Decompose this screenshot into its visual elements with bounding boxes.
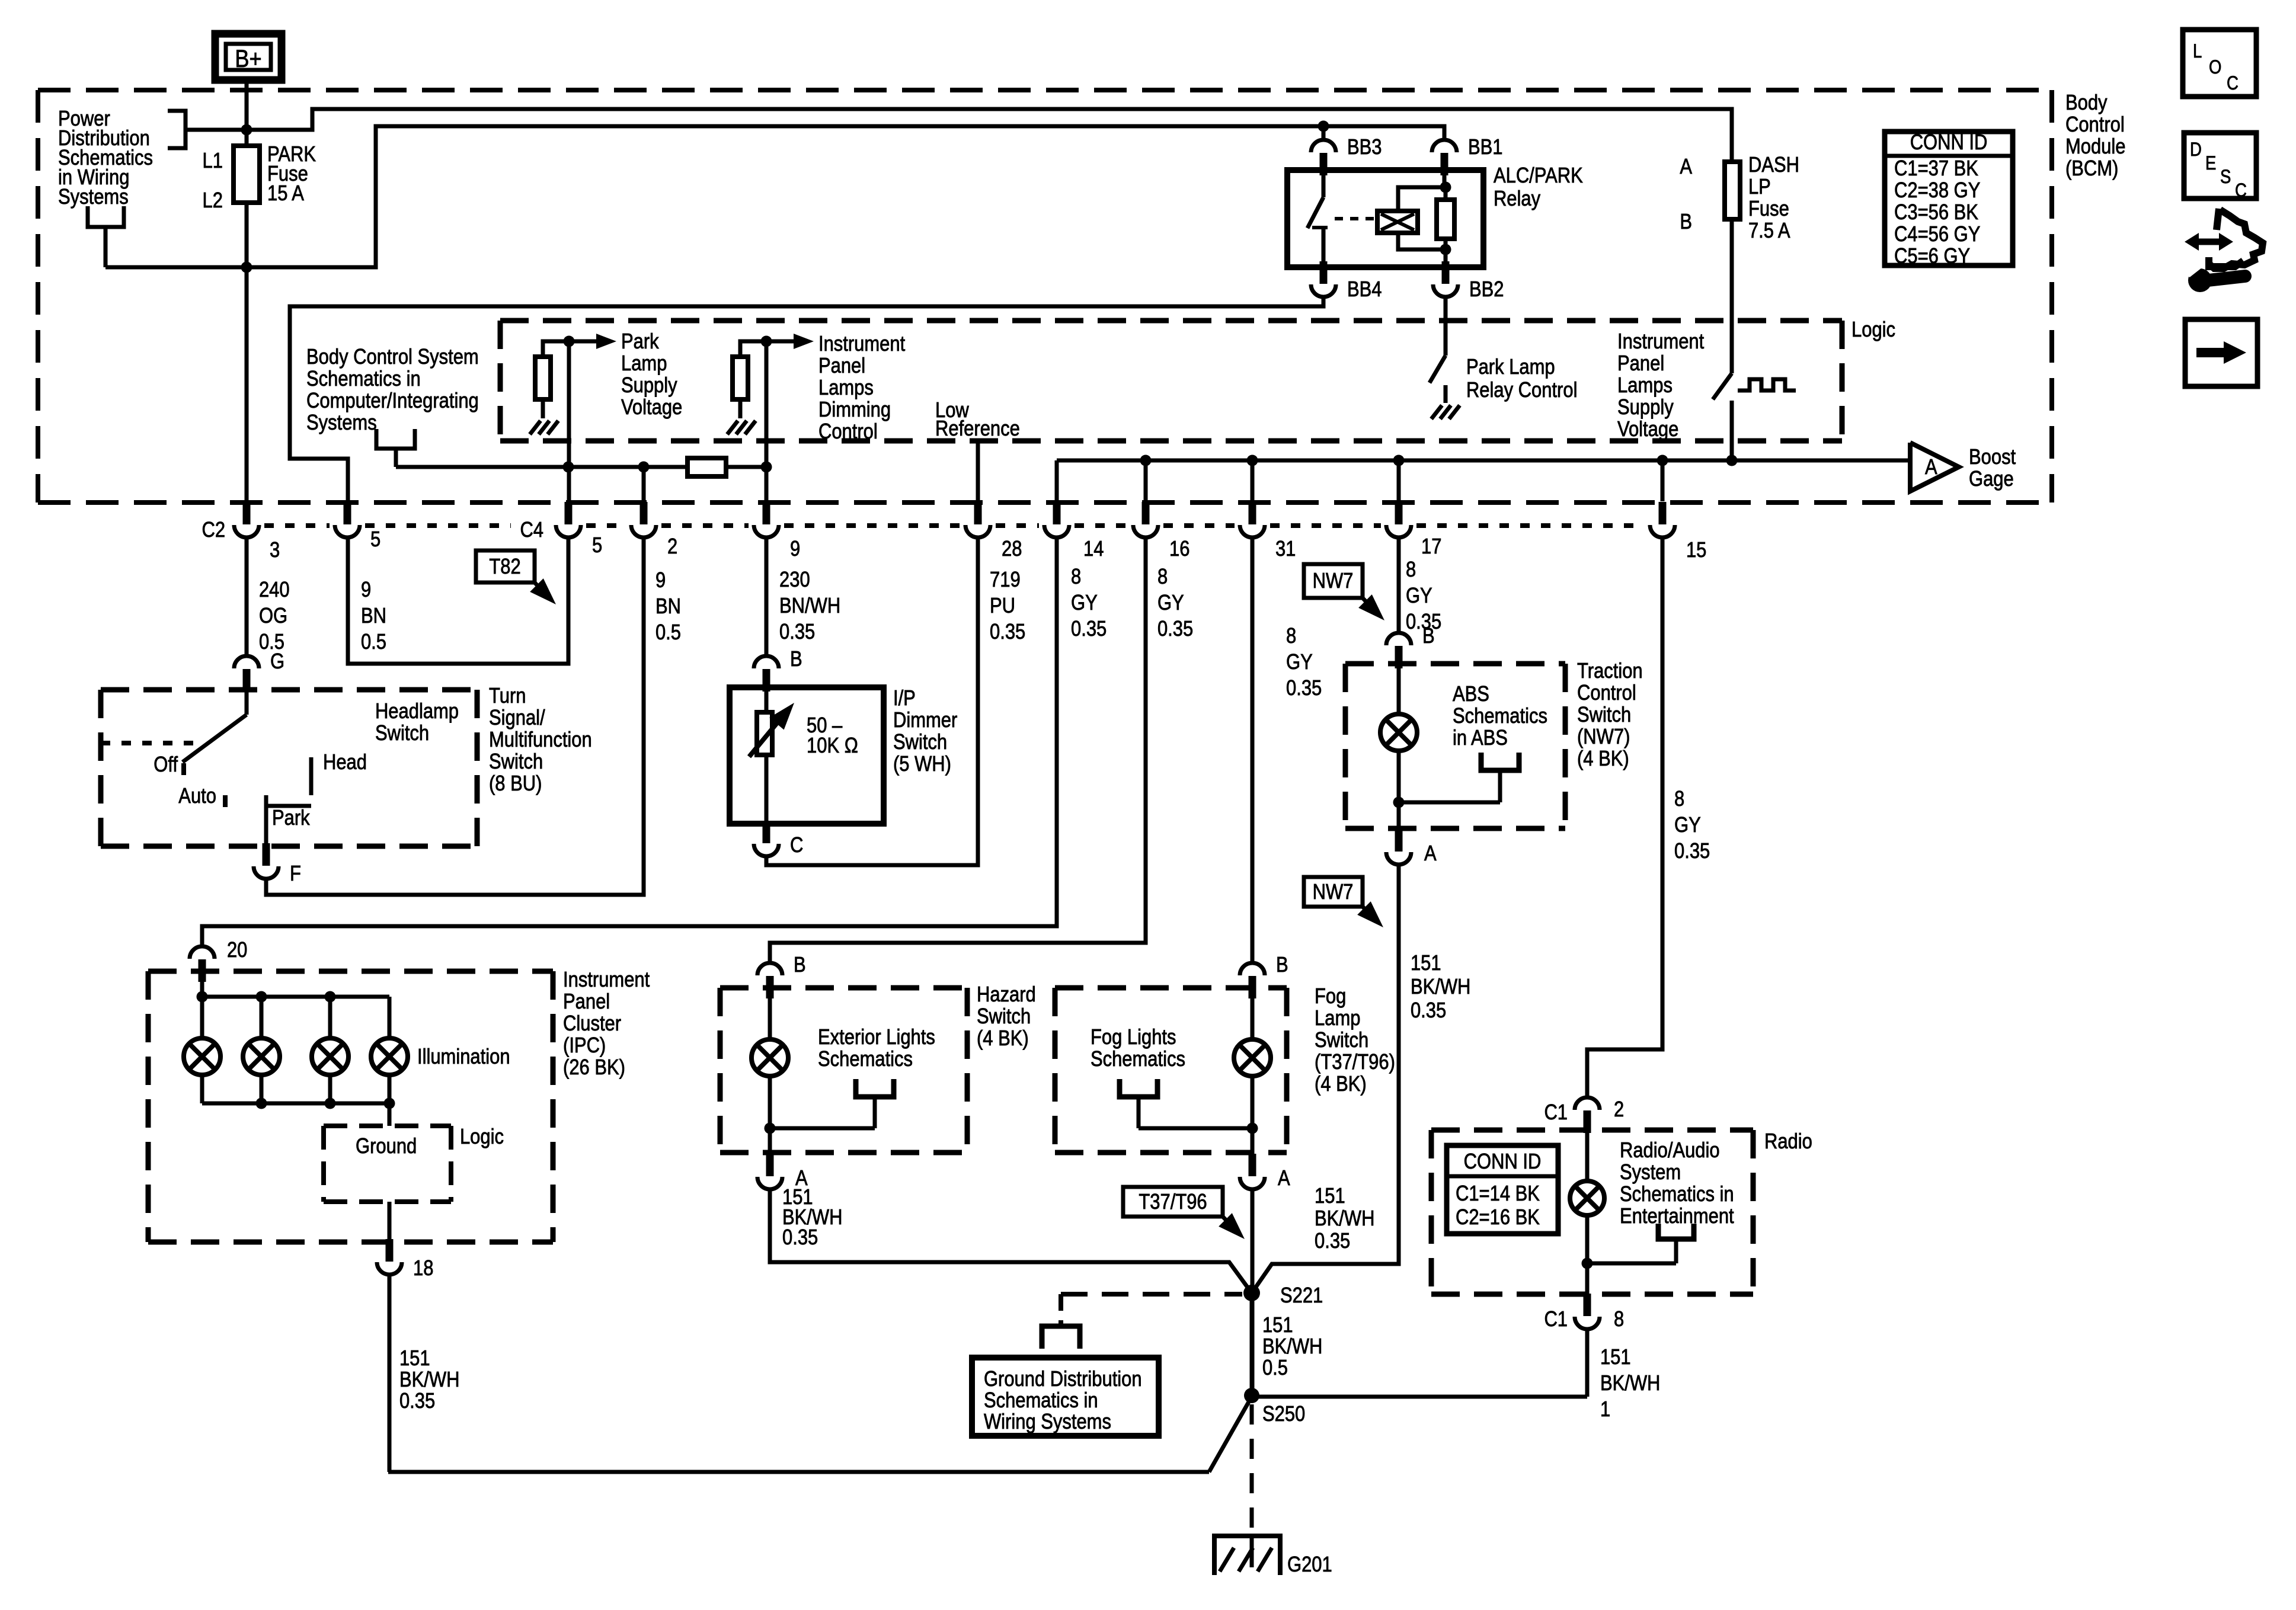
svg-text:Systems: Systems — [306, 411, 377, 435]
svg-text:NW7: NW7 — [1313, 569, 1354, 593]
svg-text:20: 20 — [227, 939, 247, 962]
svg-text:C: C — [2235, 180, 2247, 201]
svg-text:Panel: Panel — [563, 990, 610, 1014]
svg-text:151: 151 — [1411, 952, 1441, 975]
svg-text:E: E — [2205, 153, 2216, 174]
svg-text:Reference: Reference — [935, 417, 1020, 441]
svg-text:9: 9 — [361, 578, 371, 602]
svg-text:DASH: DASH — [1748, 153, 1799, 177]
svg-text:BK/WH: BK/WH — [1600, 1372, 1660, 1395]
svg-text:Lamp: Lamp — [1315, 1007, 1360, 1030]
svg-text:I/P: I/P — [893, 687, 916, 710]
svg-text:5: 5 — [592, 534, 602, 558]
svg-text:C1: C1 — [1544, 1308, 1568, 1331]
svg-text:BK/WH: BK/WH — [1411, 975, 1470, 999]
svg-text:0.35: 0.35 — [779, 620, 815, 644]
svg-text:0.35: 0.35 — [1674, 840, 1710, 863]
svg-text:G201: G201 — [1287, 1553, 1332, 1577]
svg-text:Voltage: Voltage — [621, 396, 682, 420]
svg-text:Ground: Ground — [356, 1135, 417, 1158]
svg-text:Schematics: Schematics — [1091, 1048, 1185, 1071]
svg-text:Radio: Radio — [1764, 1130, 1812, 1154]
svg-text:Logic: Logic — [1851, 318, 1895, 342]
svg-text:3: 3 — [270, 539, 280, 562]
svg-text:Supply: Supply — [621, 374, 677, 398]
svg-text:B: B — [1422, 625, 1435, 648]
svg-text:Body: Body — [2065, 91, 2108, 115]
svg-text:Off: Off — [154, 753, 178, 777]
svg-text:D: D — [2190, 139, 2202, 160]
svg-text:28: 28 — [1002, 537, 1022, 561]
svg-text:Schematics: Schematics — [818, 1048, 913, 1071]
svg-text:GY: GY — [1674, 814, 1701, 837]
svg-text:Park Lamp: Park Lamp — [1466, 356, 1555, 379]
svg-text:(4 BK): (4 BK) — [1577, 747, 1629, 771]
svg-text:0.35: 0.35 — [1315, 1230, 1350, 1253]
svg-text:GY: GY — [1157, 591, 1184, 615]
svg-text:Lamps: Lamps — [1617, 374, 1673, 398]
svg-text:10K Ω: 10K Ω — [807, 734, 858, 758]
svg-text:Fog Lights: Fog Lights — [1091, 1026, 1176, 1049]
svg-text:B: B — [794, 953, 806, 977]
svg-text:C5=6 GY: C5=6 GY — [1894, 245, 1970, 268]
svg-text:31: 31 — [1275, 537, 1296, 561]
svg-text:Dimming: Dimming — [818, 398, 891, 422]
svg-text:8: 8 — [1614, 1308, 1624, 1331]
svg-text:Schematics in: Schematics in — [306, 367, 421, 391]
svg-text:L2: L2 — [203, 189, 223, 213]
svg-text:Park: Park — [621, 330, 659, 354]
svg-text:C1: C1 — [1544, 1101, 1568, 1125]
svg-text:GY: GY — [1286, 651, 1313, 674]
svg-text:LP: LP — [1748, 175, 1771, 199]
svg-text:(8 BU): (8 BU) — [489, 772, 542, 796]
svg-text:Switch: Switch — [977, 1005, 1031, 1029]
svg-text:Instrument: Instrument — [1617, 330, 1705, 354]
svg-text:230: 230 — [779, 568, 810, 592]
svg-text:B+: B+ — [235, 46, 261, 73]
svg-text:Radio/Audio: Radio/Audio — [1620, 1139, 1720, 1163]
svg-text:Wiring Systems: Wiring Systems — [984, 1410, 1111, 1434]
svg-text:B: B — [790, 648, 802, 671]
svg-text:BK/WH: BK/WH — [1315, 1207, 1374, 1231]
svg-text:F: F — [290, 862, 301, 886]
svg-text:Switch: Switch — [375, 722, 429, 745]
svg-text:0.5: 0.5 — [655, 621, 681, 645]
svg-text:Instrument: Instrument — [563, 968, 650, 992]
svg-text:(4 BK): (4 BK) — [1315, 1073, 1367, 1096]
svg-text:C3=56 BK: C3=56 BK — [1894, 201, 1979, 225]
svg-text:8: 8 — [1286, 625, 1296, 648]
svg-text:B: B — [1276, 953, 1288, 977]
svg-text:Computer/Integrating: Computer/Integrating — [306, 389, 479, 413]
svg-text:17: 17 — [1421, 535, 1441, 559]
svg-text:L1: L1 — [203, 149, 223, 173]
svg-text:Head: Head — [323, 751, 367, 774]
svg-text:Schematics: Schematics — [1453, 705, 1547, 728]
svg-text:Relay Control: Relay Control — [1466, 379, 1577, 402]
svg-text:L: L — [2193, 41, 2202, 62]
svg-text:2: 2 — [667, 535, 677, 559]
svg-text:0.5: 0.5 — [1262, 1356, 1288, 1380]
svg-text:Schematics in: Schematics in — [984, 1389, 1098, 1413]
svg-text:Systems: Systems — [58, 185, 129, 209]
svg-text:Switch: Switch — [1315, 1029, 1368, 1052]
svg-text:0.35: 0.35 — [1071, 617, 1107, 641]
svg-text:System: System — [1620, 1161, 1681, 1185]
svg-text:A: A — [1424, 842, 1437, 866]
svg-text:ABS: ABS — [1453, 683, 1489, 706]
svg-text:0.35: 0.35 — [782, 1226, 818, 1250]
svg-text:2: 2 — [1614, 1098, 1624, 1122]
svg-text:GY: GY — [1406, 584, 1432, 608]
svg-text:(IPC): (IPC) — [563, 1034, 606, 1058]
svg-text:719: 719 — [990, 568, 1021, 592]
svg-text:BN: BN — [655, 595, 681, 619]
svg-text:7.5 A: 7.5 A — [1748, 219, 1790, 243]
svg-text:Gage: Gage — [1969, 468, 2014, 491]
svg-text:Switch: Switch — [489, 750, 543, 774]
svg-text:BN/WH: BN/WH — [779, 594, 840, 618]
svg-text:Fog: Fog — [1315, 985, 1346, 1009]
svg-text:C1=14 BK: C1=14 BK — [1456, 1182, 1540, 1206]
svg-text:C1=37 BK: C1=37 BK — [1894, 157, 1979, 181]
svg-text:Module: Module — [2065, 135, 2126, 159]
svg-text:Dimmer: Dimmer — [893, 709, 957, 732]
svg-text:OG: OG — [259, 604, 287, 628]
svg-text:Traction: Traction — [1577, 660, 1643, 683]
svg-text:Fuse: Fuse — [1748, 197, 1789, 221]
svg-text:15: 15 — [1686, 539, 1706, 562]
svg-text:Voltage: Voltage — [1617, 418, 1678, 441]
svg-text:151: 151 — [399, 1347, 430, 1371]
svg-text:0.5: 0.5 — [361, 630, 386, 654]
svg-text:BB1: BB1 — [1468, 136, 1503, 159]
svg-text:(4 BK): (4 BK) — [977, 1027, 1029, 1051]
svg-text:8: 8 — [1406, 558, 1416, 582]
svg-text:C4=56 GY: C4=56 GY — [1894, 223, 1980, 247]
svg-text:S: S — [2220, 167, 2231, 187]
svg-text:Control: Control — [1577, 681, 1636, 705]
svg-text:Panel: Panel — [1617, 352, 1664, 376]
svg-text:18: 18 — [413, 1257, 433, 1281]
svg-text:C2: C2 — [202, 518, 225, 542]
svg-text:14: 14 — [1083, 537, 1104, 561]
svg-text:Control: Control — [2065, 113, 2125, 137]
svg-text:(NW7): (NW7) — [1577, 725, 1630, 749]
svg-text:16: 16 — [1169, 537, 1189, 561]
svg-text:(5 WH): (5 WH) — [893, 753, 951, 776]
svg-text:Body Control System: Body Control System — [306, 345, 479, 369]
svg-text:Relay: Relay — [1494, 187, 1540, 211]
svg-text:C4: C4 — [520, 518, 543, 542]
svg-text:Schematics in: Schematics in — [1620, 1183, 1734, 1206]
svg-text:Multifunction: Multifunction — [489, 728, 592, 752]
svg-text:NW7: NW7 — [1313, 881, 1354, 904]
svg-text:Park: Park — [272, 806, 310, 830]
svg-text:Entertainment: Entertainment — [1620, 1205, 1734, 1228]
svg-text:0.35: 0.35 — [1286, 677, 1322, 700]
svg-text:C2=38 GY: C2=38 GY — [1894, 179, 1980, 203]
svg-text:8: 8 — [1071, 565, 1081, 589]
svg-text:Ground Distribution: Ground Distribution — [984, 1368, 1142, 1391]
svg-text:ALC/PARK: ALC/PARK — [1494, 164, 1583, 188]
svg-text:A: A — [1278, 1167, 1290, 1190]
svg-text:S221: S221 — [1280, 1284, 1323, 1308]
svg-text:(T37/T96): (T37/T96) — [1315, 1051, 1395, 1074]
svg-text:BB4: BB4 — [1347, 278, 1382, 302]
svg-text:BK/WH: BK/WH — [1262, 1335, 1322, 1359]
svg-text:Signal/: Signal/ — [489, 706, 545, 730]
svg-text:B: B — [1680, 210, 1692, 234]
svg-text:9: 9 — [790, 537, 800, 561]
svg-text:151: 151 — [1600, 1346, 1631, 1369]
svg-text:Hazard: Hazard — [977, 983, 1036, 1007]
svg-text:A: A — [1680, 155, 1692, 179]
svg-text:0.35: 0.35 — [1157, 617, 1193, 641]
svg-text:8: 8 — [1157, 565, 1168, 589]
svg-text:PU: PU — [990, 594, 1015, 618]
svg-text:Illumination: Illumination — [417, 1045, 510, 1069]
svg-text:Headlamp: Headlamp — [375, 700, 459, 724]
svg-text:G: G — [270, 650, 284, 674]
svg-text:S250: S250 — [1262, 1403, 1305, 1426]
svg-text:Logic: Logic — [460, 1125, 504, 1149]
svg-text:Lamps: Lamps — [818, 376, 874, 400]
svg-text:T37/T96: T37/T96 — [1139, 1190, 1207, 1214]
svg-text:Panel: Panel — [818, 354, 865, 378]
svg-text:Boost: Boost — [1969, 446, 2016, 469]
svg-text:(BCM): (BCM) — [2065, 157, 2118, 181]
svg-text:O: O — [2209, 57, 2221, 78]
svg-text:A: A — [1925, 456, 1937, 479]
svg-text:5: 5 — [370, 528, 380, 552]
svg-text:Switch: Switch — [893, 731, 947, 754]
svg-text:0.35: 0.35 — [399, 1390, 435, 1413]
svg-text:151: 151 — [1315, 1185, 1345, 1208]
svg-text:Lamp: Lamp — [621, 352, 667, 376]
svg-text:CONN ID: CONN ID — [1464, 1150, 1542, 1174]
svg-text:BN: BN — [361, 604, 386, 628]
svg-text:BB3: BB3 — [1347, 136, 1382, 159]
svg-text:C2=16 BK: C2=16 BK — [1456, 1206, 1540, 1230]
svg-text:(26 BK): (26 BK) — [563, 1056, 625, 1080]
svg-text:Switch: Switch — [1577, 703, 1631, 727]
svg-text:15 A: 15 A — [267, 182, 305, 206]
svg-text:0.35: 0.35 — [990, 620, 1025, 644]
svg-text:C: C — [790, 834, 803, 857]
svg-text:8: 8 — [1674, 788, 1684, 811]
svg-text:C: C — [2227, 73, 2239, 94]
svg-text:in ABS: in ABS — [1453, 726, 1508, 750]
svg-text:Exterior Lights: Exterior Lights — [818, 1026, 935, 1049]
svg-text:151: 151 — [1262, 1314, 1293, 1337]
svg-text:Cluster: Cluster — [563, 1012, 621, 1036]
svg-text:1: 1 — [1600, 1398, 1610, 1422]
svg-text:0.35: 0.35 — [1411, 999, 1446, 1023]
svg-text:T82: T82 — [489, 555, 520, 579]
svg-text:CONN ID: CONN ID — [1910, 131, 1988, 155]
svg-text:Supply: Supply — [1617, 396, 1674, 420]
svg-text:GY: GY — [1071, 591, 1098, 615]
svg-text:9: 9 — [655, 569, 666, 593]
svg-text:Control: Control — [818, 420, 878, 444]
svg-text:Auto: Auto — [178, 785, 216, 808]
svg-text:Instrument: Instrument — [818, 332, 906, 356]
svg-text:240: 240 — [259, 578, 290, 602]
svg-text:BK/WH: BK/WH — [399, 1368, 459, 1392]
svg-text:BB2: BB2 — [1469, 278, 1504, 302]
svg-text:Turn: Turn — [489, 684, 526, 708]
